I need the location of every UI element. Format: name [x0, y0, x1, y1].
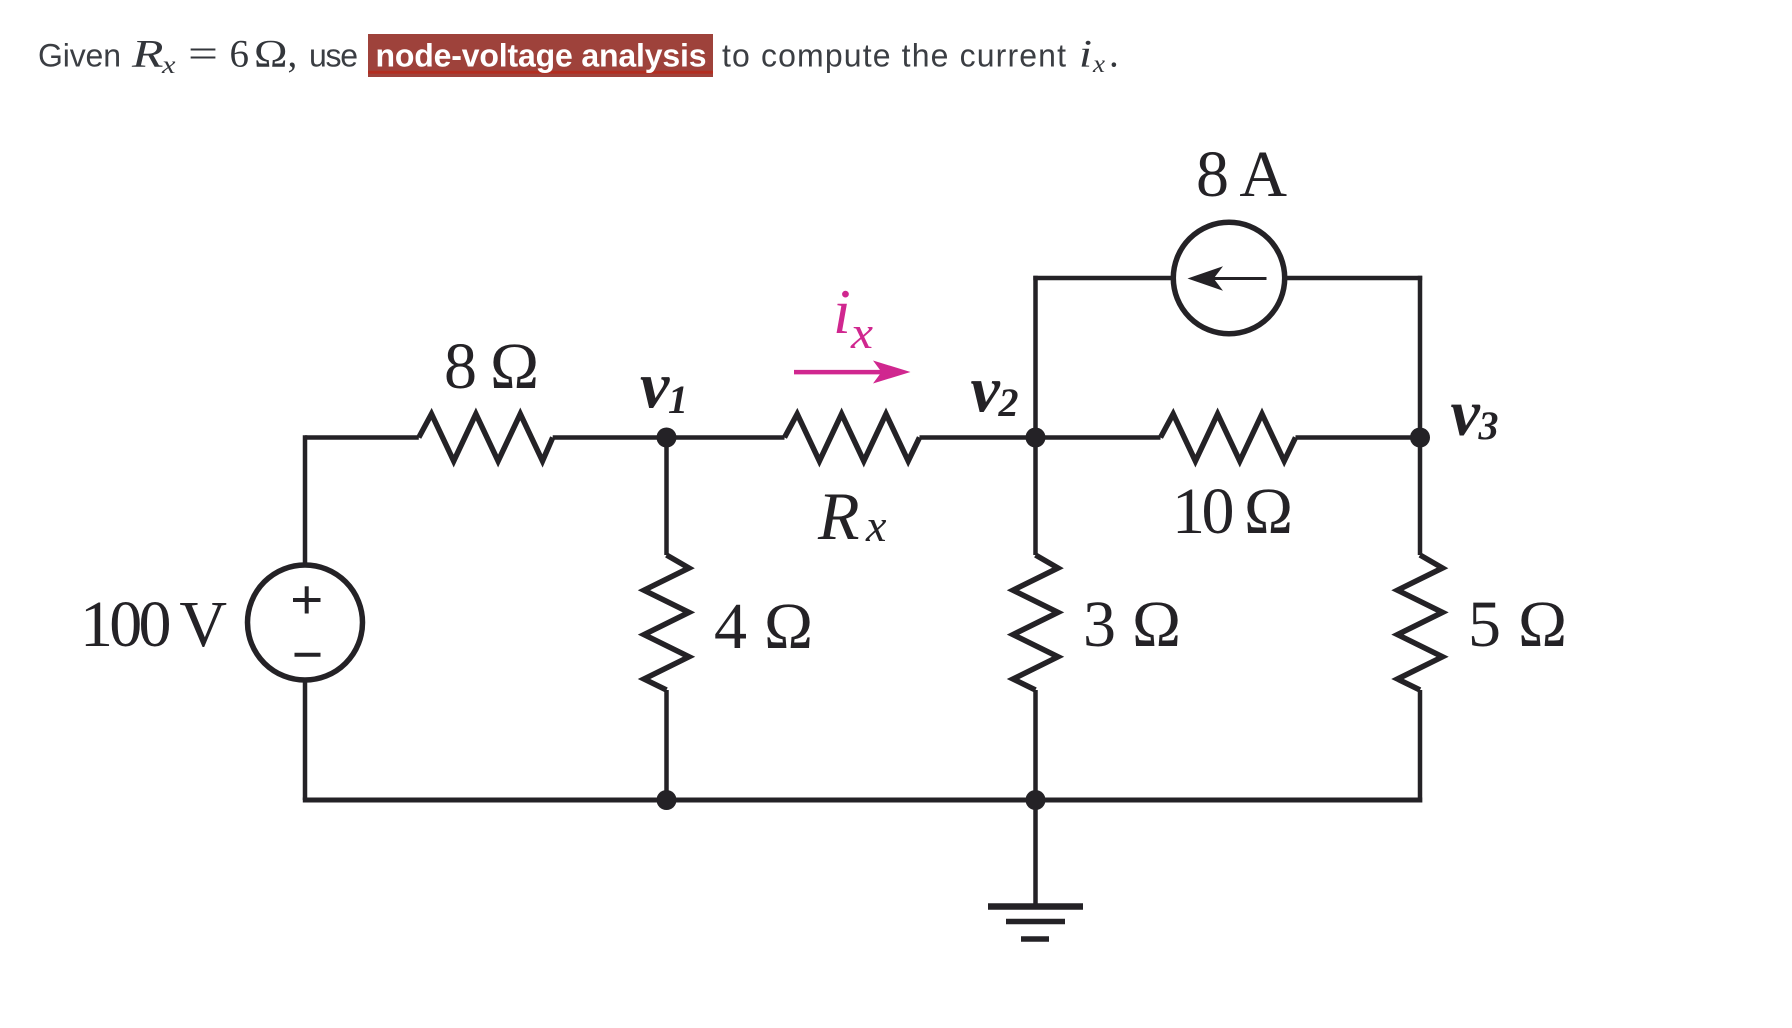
- svg-text:x: x: [850, 308, 873, 358]
- wire top-left horizontal from source top corner to 8-ohm resistor: [305, 435, 419, 440]
- svg-text:6: 6: [230, 33, 250, 76]
- svg-text:v: v: [640, 350, 670, 423]
- svg-text:1: 1: [668, 377, 688, 422]
- wire 8-ohm resistor to node v1 to Rx resistor: [553, 435, 785, 440]
- wire 3-ohm resistor down to bottom rail: [1033, 690, 1038, 800]
- resistor 3-ohm zigzag: [1013, 555, 1058, 690]
- svg-text:3 Ω: 3 Ω: [1083, 588, 1181, 661]
- label ix (magenta): [833, 276, 873, 358]
- svg-text:use: use: [309, 38, 358, 74]
- svg-text:=: =: [188, 33, 218, 76]
- svg-text:v: v: [971, 354, 1001, 427]
- resistor 5-ohm zigzag: [1398, 555, 1443, 690]
- svg-text:x: x: [161, 52, 176, 79]
- svg-text:node-voltage analysis: node-voltage analysis: [376, 38, 707, 74]
- bottom node dot below v1: [657, 790, 677, 810]
- bottom node dot below v2 (ground node): [1026, 790, 1046, 810]
- svg-text:10 Ω: 10 Ω: [1172, 475, 1293, 548]
- circuit labels: [80, 138, 1567, 663]
- svg-text:8 A: 8 A: [1196, 138, 1287, 211]
- svg-text:x: x: [1092, 51, 1105, 78]
- problem statement text: [38, 33, 1119, 80]
- resistor Rx zigzag: [785, 414, 920, 461]
- wire 5-ohm resistor down to bottom-right corner: [1418, 690, 1423, 803]
- wire voltage source bottom to bottom-left corner: [303, 680, 308, 800]
- circuit wires: [303, 276, 1422, 803]
- svg-text:x: x: [865, 500, 887, 551]
- svg-text:to compute the current: to compute the current: [722, 38, 1066, 74]
- resistor R 8-ohm zigzag: [419, 414, 553, 461]
- resistor 10-ohm zigzag: [1161, 414, 1296, 461]
- svg-text:R: R: [817, 478, 860, 554]
- wire 10-ohm resistor to node v3: [1296, 435, 1421, 440]
- svg-text:8 Ω: 8 Ω: [444, 330, 539, 403]
- svg-text:Ω: Ω: [254, 33, 288, 76]
- svg-text:R: R: [131, 33, 164, 76]
- node v1 junction dot: [657, 428, 677, 448]
- minus sign inside voltage source: [295, 653, 321, 657]
- svg-text:4 Ω: 4 Ω: [714, 590, 813, 663]
- resistor zigzags: [419, 414, 1443, 690]
- svg-text:5 Ω: 5 Ω: [1468, 588, 1567, 661]
- wire 8A branch right vertical down to node v3: [1418, 276, 1423, 438]
- svg-text:100 V: 100 V: [80, 588, 227, 661]
- bottom rail wire: [303, 798, 1422, 803]
- wire 4-ohm resistor down to bottom rail: [664, 690, 669, 800]
- wire left vertical corner down to voltage source top: [303, 435, 308, 565]
- wire current source to 8A branch right corner: [1285, 276, 1423, 281]
- ix current arrow (magenta): [794, 361, 911, 384]
- voltage source V1 100V circle: [248, 565, 363, 680]
- svg-text:Given: Given: [38, 38, 121, 74]
- wire node v2 up to 8A branch: [1033, 276, 1038, 438]
- svg-text:,: ,: [288, 33, 298, 76]
- ground symbol: [988, 800, 1083, 939]
- svg-text:i: i: [833, 276, 851, 347]
- svg-text:3: 3: [1478, 403, 1499, 448]
- arrow inside current source pointing left: [1188, 266, 1267, 290]
- wire node v3 down to 5-ohm resistor: [1418, 438, 1423, 556]
- wire Rx resistor to node v2 to 10-ohm resistor: [920, 435, 1161, 440]
- svg-text:v: v: [1451, 377, 1481, 450]
- svg-text:i: i: [1079, 33, 1092, 76]
- wire node v1 down to 4-ohm resistor: [664, 438, 669, 556]
- current source I1 8A circle: [1173, 222, 1284, 333]
- wire node v2 down to 3-ohm resistor: [1033, 438, 1038, 556]
- highlight underline: [368, 71, 713, 74]
- highlight box: [368, 34, 713, 77]
- node v3 junction dot: [1410, 428, 1430, 448]
- node v2 junction dot: [1026, 428, 1046, 448]
- wire 8A branch left horizontal to current source: [1033, 276, 1173, 281]
- resistor 4-ohm zigzag: [644, 555, 689, 690]
- plus sign inside voltage source: [293, 586, 321, 613]
- svg-text:2: 2: [998, 380, 1019, 425]
- svg-text:.: .: [1109, 33, 1119, 76]
